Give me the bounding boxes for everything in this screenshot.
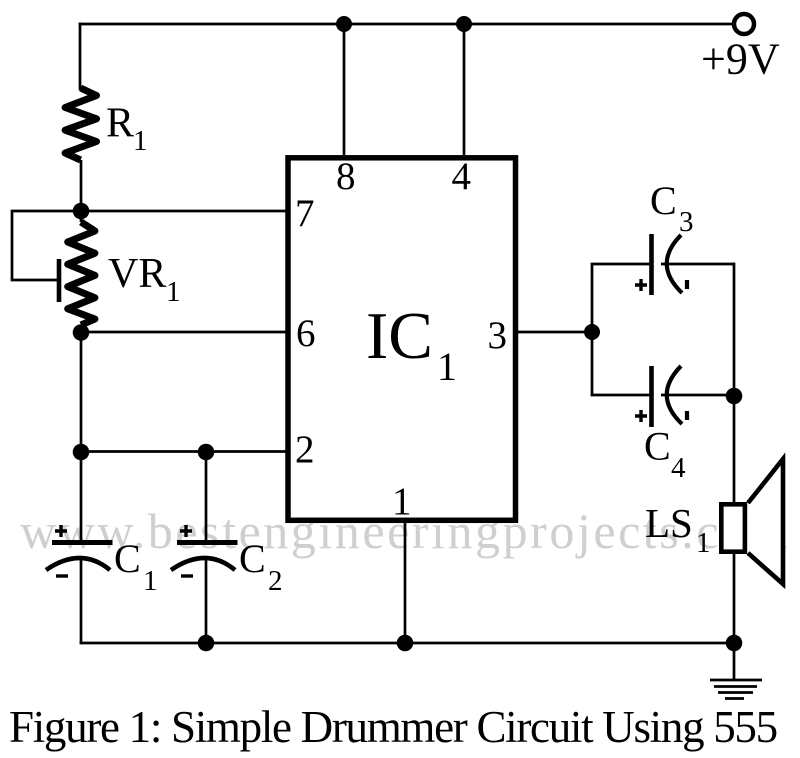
svg-text:4: 4 [671, 452, 686, 484]
svg-text:1: 1 [143, 565, 158, 597]
svg-text:3: 3 [488, 314, 508, 357]
svg-text:8: 8 [336, 155, 356, 198]
svg-text:1: 1 [696, 527, 711, 559]
svg-text:7: 7 [295, 192, 315, 235]
svg-text:2: 2 [295, 428, 315, 471]
svg-text:IC: IC [366, 299, 433, 373]
svg-text:1: 1 [392, 480, 412, 523]
svg-text:4: 4 [452, 155, 472, 198]
svg-text:Figure 1: Simple Drummer Circu: Figure 1: Simple Drummer Circuit Using 5… [9, 702, 777, 752]
svg-text:+9V: +9V [701, 35, 780, 84]
svg-text:1: 1 [437, 344, 457, 389]
svg-text:VR: VR [108, 251, 166, 297]
svg-text:3: 3 [679, 206, 694, 238]
svg-text:R: R [106, 101, 134, 147]
svg-text:6: 6 [296, 312, 316, 355]
svg-text:C: C [650, 178, 677, 223]
svg-text:C: C [239, 536, 266, 581]
svg-text:C: C [644, 424, 671, 469]
svg-text:1: 1 [166, 276, 181, 308]
svg-text:2: 2 [268, 565, 283, 597]
svg-text:C: C [114, 536, 141, 581]
svg-text:LS: LS [645, 500, 693, 546]
svg-text:1: 1 [133, 125, 148, 157]
